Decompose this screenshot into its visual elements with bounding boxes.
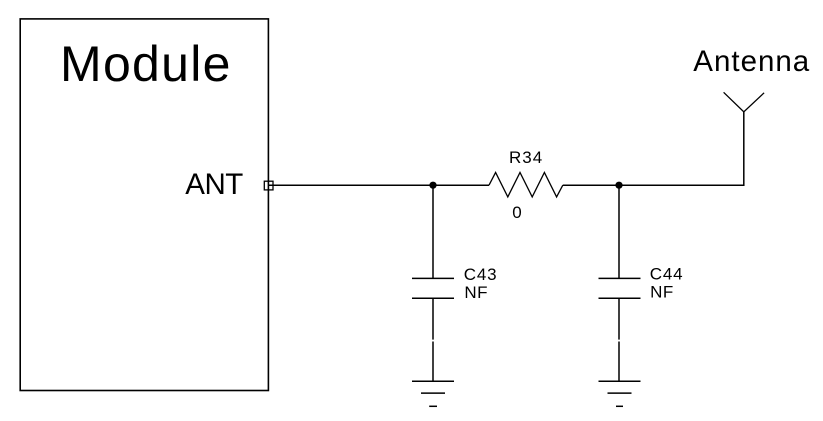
junction node 2 bbox=[615, 182, 622, 189]
wire: resistor to node 2 bbox=[563, 184, 619, 186]
label Antenna bbox=[693, 45, 810, 78]
module U1 body bbox=[20, 19, 268, 391]
label "Module" bbox=[60, 36, 232, 92]
antenna symbol bbox=[724, 92, 765, 112]
ground G1 bbox=[412, 381, 454, 406]
value 0 bbox=[512, 203, 521, 222]
svg-text:Module: Module bbox=[60, 36, 232, 92]
wire: node 1 to resistor bbox=[433, 184, 489, 186]
wire: C43 to ground upper segment bbox=[432, 298, 434, 339]
ground G2 bbox=[599, 381, 641, 406]
wire: C44 to ground upper segment bbox=[618, 298, 620, 339]
capacitor C43 top plate bbox=[412, 277, 454, 279]
capacitor C43 bottom plate bbox=[412, 297, 454, 299]
svg-text:0: 0 bbox=[512, 203, 521, 222]
wire: node 2 down to C44 bbox=[618, 185, 620, 278]
svg-text:Antenna: Antenna bbox=[693, 45, 810, 78]
capacitor C44 bottom plate bbox=[599, 297, 641, 299]
value NF (C43) bbox=[464, 283, 488, 302]
junction node 1 bbox=[429, 182, 436, 189]
capacitor C44 top plate bbox=[599, 277, 641, 279]
wire: antenna riser bbox=[743, 112, 745, 186]
pin label ANT bbox=[185, 168, 243, 201]
svg-text:C43: C43 bbox=[464, 265, 498, 284]
svg-text:NF: NF bbox=[464, 283, 488, 302]
wire: node 2 to antenna corner bbox=[619, 184, 745, 186]
pin square (ANT pin) bbox=[264, 181, 273, 190]
label C43 bbox=[464, 265, 498, 284]
svg-text:R34: R34 bbox=[509, 148, 543, 167]
label C44 bbox=[650, 265, 684, 284]
wire: C43 to ground lower segment bbox=[432, 342, 434, 382]
svg-text:C44: C44 bbox=[650, 265, 684, 284]
wire: C44 to ground lower segment bbox=[618, 342, 620, 382]
resistor R34 bbox=[489, 172, 563, 197]
svg-text:ANT: ANT bbox=[185, 168, 243, 201]
wire: node 1 down to C43 bbox=[432, 185, 434, 278]
svg-text:NF: NF bbox=[650, 283, 674, 302]
label R34 bbox=[509, 148, 543, 167]
value NF (C44) bbox=[650, 283, 674, 302]
wire: ANT pin to node 1 bbox=[269, 184, 434, 186]
